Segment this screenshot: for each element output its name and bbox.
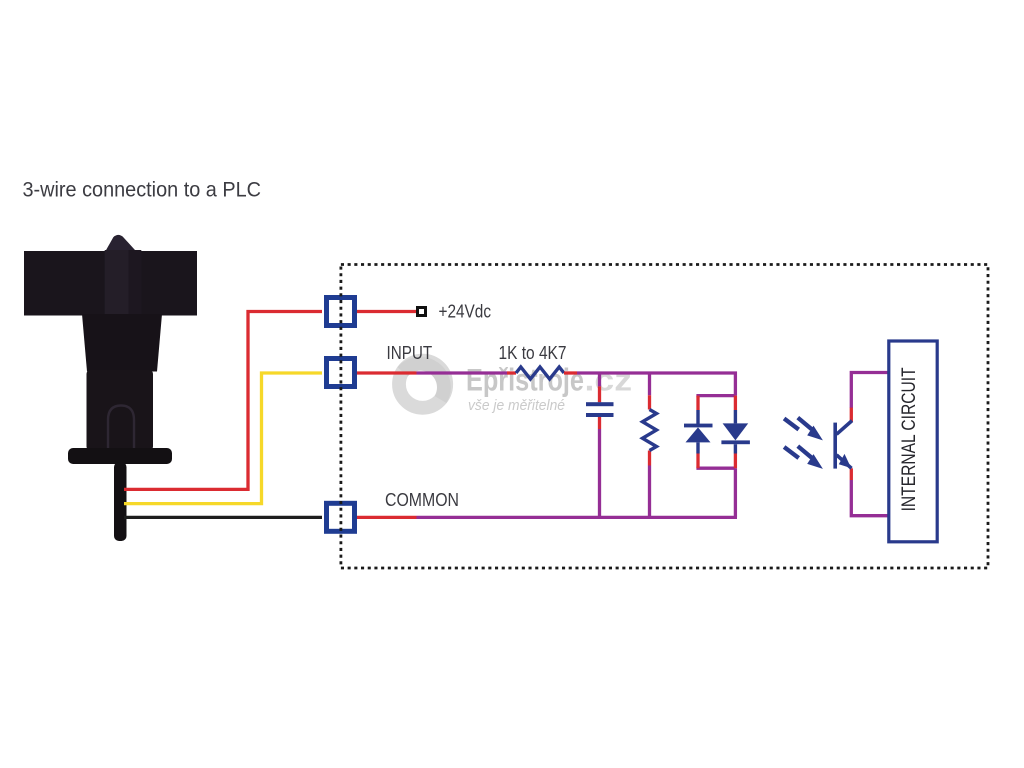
watermark brand text — [466, 361, 632, 397]
INTERNAL CIRCUIT box — [889, 341, 937, 542]
resistor R2 (vertical zigzag) — [643, 410, 657, 451]
wire: +24Vdc red stub — [357, 310, 417, 313]
svg-text:3-wire connection to a PLC: 3-wire connection to a PLC — [23, 178, 262, 202]
capacitor C1 branch wires — [598, 373, 601, 517]
diode D2 (right, pointing down) — [721, 396, 750, 469]
svg-text:+24Vdc: +24Vdc — [439, 301, 492, 322]
svg-text:INTERNAL CIRCUIT: INTERNAL CIRCUIT — [899, 367, 920, 511]
optocoupler light arrow 2 — [784, 446, 823, 469]
diode D1 (left, pointing up) — [684, 396, 713, 469]
wire: resistor left red stub — [507, 371, 516, 374]
svg-text:.cz: .cz — [585, 361, 633, 397]
svg-text:Epřistroje: Epřistroje — [466, 361, 584, 397]
wire: input purple to resistor — [417, 371, 508, 374]
wire: top purple bus to right vertical — [577, 373, 735, 396]
PLC boundary (dashed border) — [341, 265, 988, 569]
terminal X1 (+24Vdc) — [327, 298, 355, 326]
resistor R1 1K to 4K7 (horizontal zigzag) — [516, 367, 564, 379]
optocoupler light arrow 1 — [784, 418, 823, 441]
wire: bottom purple bus — [417, 516, 738, 519]
wire: sensor yellow (signal) lead — [124, 373, 322, 504]
resistor R2 branch wires — [648, 373, 651, 517]
wire: input red stub from terminal — [357, 371, 417, 374]
phototransistor Q1 symbol — [833, 421, 852, 469]
svg-text:vše je měřitelné: vše je měřitelné — [468, 397, 565, 414]
phototransistor Q1 wires — [851, 373, 889, 516]
svg-text:COMMON: COMMON — [385, 489, 459, 510]
wire: sensor red (brown/+V) lead — [124, 312, 322, 490]
sensor body (3-wire proximity sensor) — [24, 235, 197, 541]
svg-text:1K to 4K7: 1K to 4K7 — [499, 342, 567, 363]
diode sub-loop wires — [696, 396, 735, 518]
terminal X3 (COMMON) — [327, 503, 355, 531]
svg-text:INPUT: INPUT — [387, 342, 433, 363]
watermark logo ring — [399, 361, 446, 408]
node +24Vdc square — [418, 308, 426, 316]
wire: COMMON red stub — [357, 516, 417, 519]
terminal X2 (INPUT) — [327, 359, 355, 387]
wire: sensor black (0V) lead — [124, 516, 322, 519]
capacitor C1 plates — [586, 402, 614, 417]
wire: resistor right red stub — [564, 371, 577, 374]
